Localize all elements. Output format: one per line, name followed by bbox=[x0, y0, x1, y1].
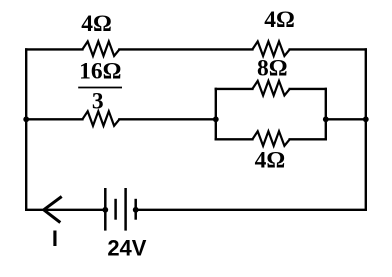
wire middle to box bbox=[119, 118, 215, 120]
wire box left vertical bbox=[215, 89, 217, 139]
wire box top-right stub bbox=[290, 88, 326, 90]
wire top right stub bbox=[290, 48, 366, 50]
wire left vertical bbox=[25, 49, 27, 209]
resistor 16/3 ohm bbox=[82, 111, 119, 126]
junction dot box left bbox=[213, 116, 219, 122]
wire box right vertical bbox=[325, 89, 327, 139]
resistor 4ohm top-right bbox=[252, 41, 289, 56]
junction dot battery right bbox=[133, 207, 139, 213]
svg-text:8Ω: 8Ω bbox=[257, 55, 288, 81]
svg-text:24V: 24V bbox=[107, 235, 146, 260]
svg-text:4Ω: 4Ω bbox=[255, 148, 286, 174]
battery B1 plate long right bbox=[124, 188, 127, 231]
svg-text:4Ω: 4Ω bbox=[81, 11, 112, 37]
resistor 4ohm top-left bbox=[82, 41, 119, 56]
junction dot left middle bbox=[23, 116, 29, 122]
wire box bottom-left stub bbox=[216, 138, 253, 140]
wire box to right bbox=[326, 118, 366, 120]
current arrow bbox=[44, 197, 62, 223]
wire middle left stub bbox=[26, 118, 82, 120]
svg-text:3: 3 bbox=[92, 89, 104, 115]
junction dot right middle bbox=[363, 116, 369, 122]
resistor 8ohm parallel top bbox=[252, 81, 289, 96]
junction dot battery left bbox=[102, 207, 108, 213]
wire box top-left stub bbox=[216, 88, 253, 90]
battery B1 plate short right bbox=[134, 199, 137, 220]
wire bottom left (through arrow) bbox=[26, 209, 105, 211]
battery B1 plate long left bbox=[104, 188, 107, 231]
wire right vertical bbox=[365, 49, 367, 209]
wire top middle bbox=[119, 48, 252, 50]
wire bottom right bbox=[136, 209, 366, 211]
resistor 4ohm parallel bottom bbox=[252, 131, 289, 146]
junction dot box right bbox=[323, 116, 329, 122]
wire box bottom-right stub bbox=[290, 138, 326, 140]
fraction bar bbox=[78, 87, 122, 89]
svg-text:4Ω: 4Ω bbox=[264, 7, 295, 33]
svg-text:I: I bbox=[52, 226, 58, 251]
battery B1 plate short left bbox=[114, 199, 117, 220]
svg-text:16Ω: 16Ω bbox=[79, 59, 121, 85]
wire top left stub bbox=[26, 48, 82, 50]
